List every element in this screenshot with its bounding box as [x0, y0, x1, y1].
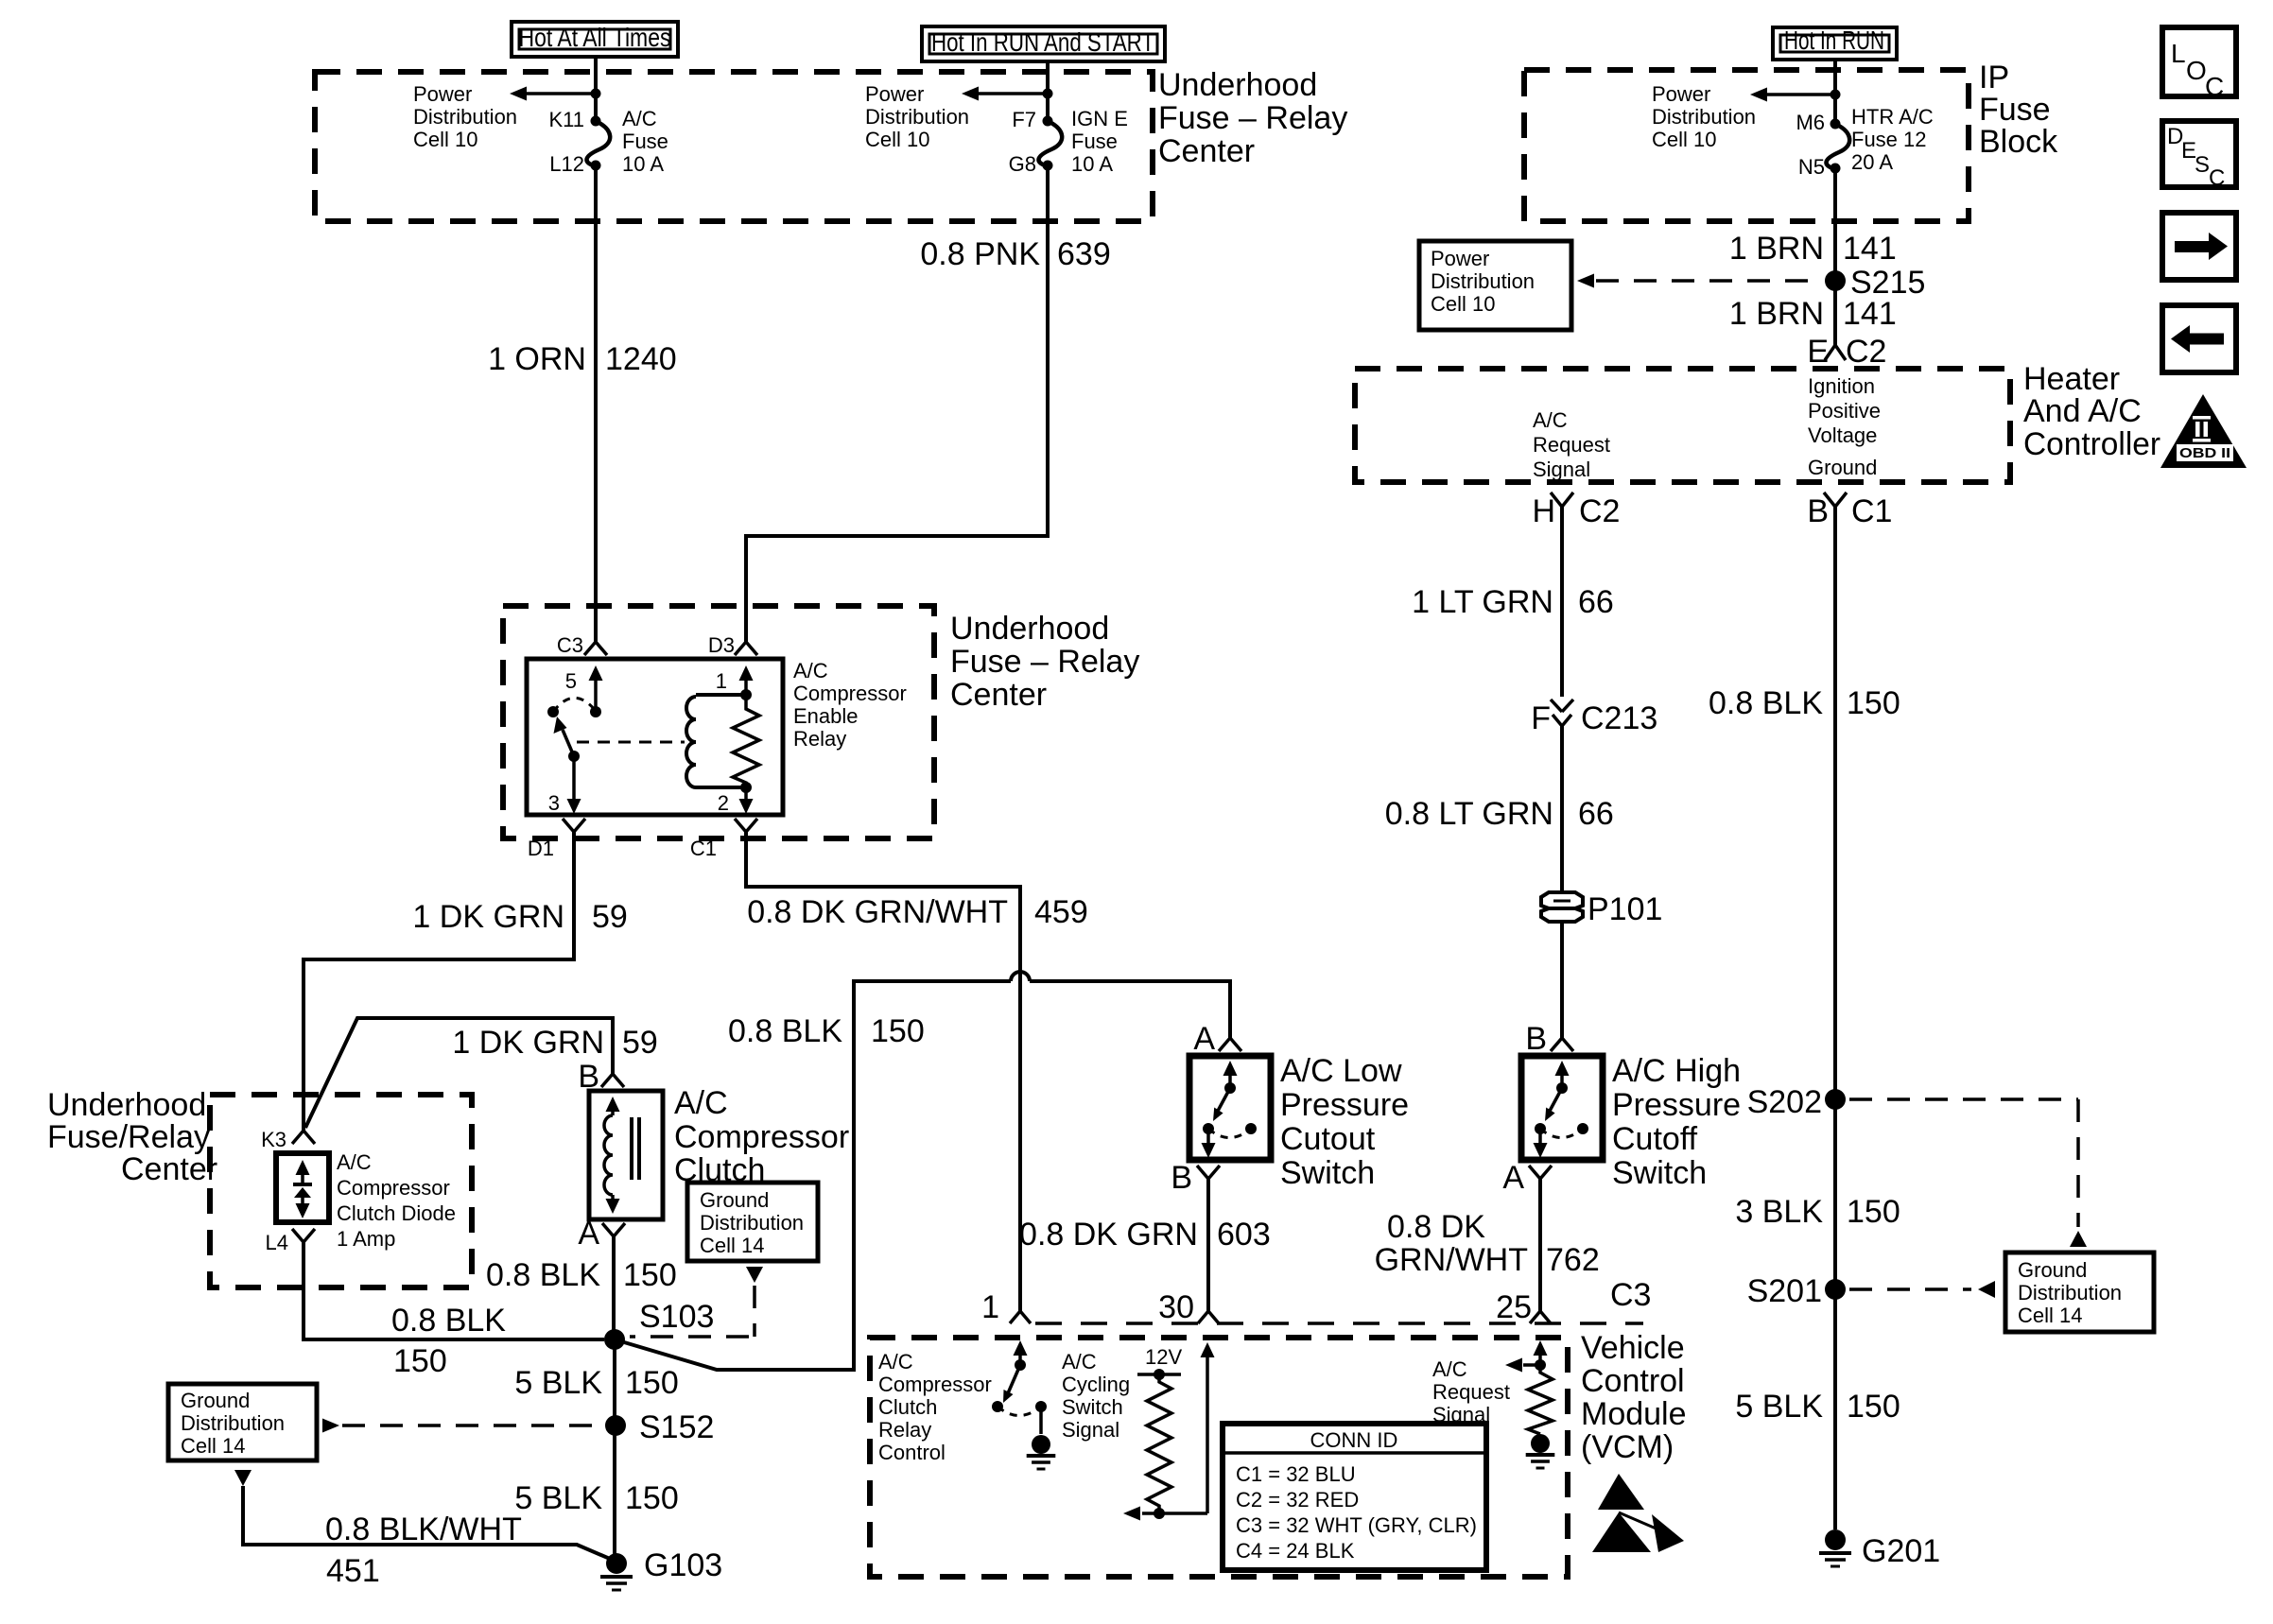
- svg-text:OBD II: OBD II: [2179, 446, 2230, 461]
- pin F7: [1012, 108, 1036, 131]
- svg-text:Cell 10: Cell 10: [865, 128, 929, 151]
- svg-text:Switch: Switch: [1062, 1395, 1123, 1419]
- svg-text:C2 = 32 RED: C2 = 32 RED: [1236, 1488, 1359, 1512]
- connector E C2 into controller: [1807, 334, 1886, 370]
- svg-text:Signal: Signal: [1062, 1418, 1119, 1442]
- svg-text:Heater: Heater: [2023, 361, 2120, 397]
- pointer from S201 to ground distribution: [1849, 1281, 1995, 1298]
- svg-text:Cycling: Cycling: [1062, 1373, 1130, 1396]
- pointer arrow from S215 to power distribution: [1577, 274, 1821, 288]
- label: 1 LT GRN 66: [1412, 584, 1614, 620]
- svg-text:L: L: [2171, 39, 2186, 68]
- underhood fuse-relay center box (top): [315, 72, 1153, 221]
- relay movable contact arm: [554, 717, 575, 756]
- svg-text:150: 150: [625, 1480, 679, 1516]
- svg-text:20 A: 20 A: [1851, 150, 1893, 174]
- label: 0.8 DK GRN 603: [1019, 1217, 1271, 1253]
- label: 1 BRN 141 (upper): [1729, 231, 1897, 267]
- ground G201: [1819, 1529, 1940, 1569]
- label: 0.8 BLK 150 (clutch ground): [486, 1257, 677, 1293]
- label: A/C Compressor Clutch: [674, 1085, 849, 1188]
- legend icon: left arrow box: [2162, 305, 2236, 372]
- svg-text:D1: D1: [528, 837, 554, 860]
- svg-text:1 ORN: 1 ORN: [488, 341, 586, 377]
- svg-text:Power: Power: [413, 82, 472, 106]
- wire: clutch A to S103: [612, 1236, 616, 1340]
- svg-text:Cell 10: Cell 10: [413, 128, 477, 151]
- relay U1: A/C Compressor Enable Relay box: [527, 659, 783, 815]
- wire: P101 to high pressure switch B: [1560, 922, 1564, 1038]
- svg-text:C1: C1: [1851, 493, 1892, 529]
- arrow to Power Distribution Cell 10 (IP): [1750, 88, 1841, 102]
- relay pin 3 arrow to D1: [548, 756, 581, 815]
- relay switch pivot contact: [547, 706, 559, 717]
- label: 1 DK GRN 59 (lower): [452, 1025, 657, 1061]
- svg-text:IGN E: IGN E: [1071, 107, 1128, 130]
- splice S202: [1747, 1084, 1846, 1120]
- relay pin 2 arrow to C1: [718, 787, 754, 815]
- connector A into low pressure switch: [1193, 1021, 1241, 1057]
- relay switch dashed arc: [553, 698, 596, 712]
- svg-text:762: 762: [1546, 1242, 1600, 1278]
- wire: 0.8 BLK 150 from S103 to low pressure switch A with hop over 459: [615, 972, 1230, 1370]
- label: 150 (L4 wire): [393, 1343, 447, 1379]
- svg-text:C2: C2: [1846, 334, 1886, 370]
- connector C213 inline: [1531, 700, 1657, 736]
- svg-text:1 DK GRN: 1 DK GRN: [412, 899, 564, 935]
- label: 1 BRN 141 (lower): [1729, 296, 1897, 332]
- pin M6: [1796, 111, 1825, 134]
- svg-text:59: 59: [622, 1025, 658, 1061]
- svg-text:0.8 PNK: 0.8 PNK: [920, 236, 1040, 272]
- label: A/C High Pressure Cutoff Switch: [1612, 1053, 1741, 1191]
- svg-text:A/C: A/C: [1533, 408, 1568, 432]
- label: 5 BLK 150 (upper): [514, 1365, 678, 1401]
- svg-text:0.8 BLK: 0.8 BLK: [391, 1303, 506, 1339]
- connector B out of low pressure switch: [1171, 1160, 1220, 1196]
- svg-text:Clutch: Clutch: [878, 1395, 937, 1419]
- VCM switch ground: [1027, 1435, 1056, 1469]
- svg-text:0.8 BLK/WHT: 0.8 BLK/WHT: [325, 1512, 522, 1547]
- svg-text:1 LT GRN: 1 LT GRN: [1412, 584, 1553, 620]
- svg-text:Voltage: Voltage: [1808, 423, 1877, 447]
- svg-text:Enable: Enable: [793, 704, 859, 728]
- svg-text:Fuse – Relay: Fuse – Relay: [950, 644, 1139, 680]
- svg-text:B: B: [1807, 493, 1829, 529]
- connector C3 into relay: [557, 633, 607, 657]
- svg-text:Positive: Positive: [1808, 399, 1881, 423]
- arrow to Power Distribution Cell 10 (middle): [962, 87, 1053, 101]
- svg-text:Controller: Controller: [2023, 426, 2160, 462]
- svg-text:And A/C: And A/C: [2023, 393, 2142, 429]
- label: Underhood Fuse - Relay Center (top): [1158, 67, 1347, 169]
- splice S215: [1825, 265, 1925, 301]
- svg-text:L4: L4: [266, 1231, 288, 1254]
- svg-text:Pressure: Pressure: [1280, 1087, 1409, 1123]
- connector H C2 out of controller: [1532, 492, 1620, 529]
- legend icon: LOC box: [2162, 27, 2236, 101]
- svg-text:66: 66: [1578, 796, 1614, 832]
- svg-text:Distribution: Distribution: [1652, 105, 1756, 129]
- svg-text:1 BRN: 1 BRN: [1729, 296, 1824, 332]
- svg-text:G103: G103: [644, 1547, 722, 1583]
- svg-text:Power: Power: [865, 82, 924, 106]
- svg-text:1: 1: [981, 1289, 999, 1325]
- svg-text:150: 150: [1847, 685, 1900, 721]
- svg-text:Cell 10: Cell 10: [1652, 128, 1716, 151]
- label: A/C Low Pressure Cutout Switch: [1280, 1053, 1409, 1191]
- svg-text:Center: Center: [950, 677, 1047, 713]
- svg-text:5 BLK: 5 BLK: [1735, 1389, 1823, 1425]
- svg-text:IP: IP: [1979, 60, 2009, 95]
- svg-text:Hot In RUN: Hot In RUN: [1784, 26, 1884, 55]
- wire: battery feed to A/C fuse: [594, 57, 598, 121]
- svg-text:Block: Block: [1979, 124, 2058, 160]
- svg-text:150: 150: [625, 1365, 679, 1401]
- pointer arrow from ground distribution to S103: [630, 1267, 763, 1337]
- label: 0.8 PNK 639: [920, 236, 1110, 272]
- label: A/C Compressor Clutch Diode 1 Amp: [337, 1150, 456, 1251]
- thin connector line C3 of VCM: [1035, 1322, 1643, 1325]
- svg-text:GRN/WHT: GRN/WHT: [1375, 1242, 1528, 1278]
- label: 0.8 DK GRN/WHT 459: [747, 894, 1088, 930]
- svg-text:Ground: Ground: [2018, 1258, 2087, 1282]
- svg-text:459: 459: [1034, 894, 1088, 930]
- svg-text:Center: Center: [121, 1151, 217, 1187]
- svg-text:F7: F7: [1012, 108, 1036, 131]
- label: 0.8 BLK/WHT 451: [325, 1512, 522, 1589]
- connector B into high pressure switch: [1525, 1021, 1573, 1057]
- svg-text:S201: S201: [1747, 1273, 1822, 1309]
- svg-text:141: 141: [1843, 231, 1897, 267]
- fuse: HTR A/C Fuse 12 20 A (M6-N5): [1827, 119, 1850, 174]
- label: 0.8 LT GRN 66: [1385, 796, 1614, 832]
- svg-text:Cutout: Cutout: [1280, 1121, 1376, 1157]
- svg-text:0.8 BLK: 0.8 BLK: [486, 1257, 600, 1293]
- pin K11: [548, 108, 584, 131]
- splice S201: [1747, 1273, 1846, 1309]
- label: 5 BLK 150 (right): [1735, 1389, 1900, 1425]
- svg-text:1 DK GRN: 1 DK GRN: [452, 1025, 604, 1061]
- svg-text:25: 25: [1496, 1289, 1532, 1325]
- svg-text:Distribution: Distribution: [700, 1211, 804, 1235]
- svg-text:B: B: [1171, 1160, 1192, 1196]
- svg-text:Ground: Ground: [700, 1188, 769, 1212]
- ground G103: [600, 1547, 722, 1590]
- relay resistor: [733, 695, 759, 787]
- svg-text:150: 150: [1847, 1194, 1900, 1230]
- svg-text:Switch: Switch: [1612, 1155, 1707, 1191]
- label: 0.8 BLK 150 (right): [1709, 685, 1900, 721]
- svg-text:S152: S152: [639, 1409, 714, 1445]
- VCM pin 25: [1496, 1289, 1551, 1325]
- svg-text:Cell 10: Cell 10: [1431, 292, 1495, 316]
- svg-text:A/C: A/C: [1062, 1350, 1097, 1373]
- svg-text:C1: C1: [690, 837, 717, 860]
- relay pin 1 arrow: [716, 665, 754, 695]
- relay coil actuation dashed link: [577, 741, 685, 744]
- switch S2: A/C High Pressure Cutoff Switch box: [1521, 1056, 1603, 1160]
- svg-text:Underhood: Underhood: [1158, 67, 1317, 103]
- connector L4 out of diode: [266, 1229, 315, 1254]
- high pressure switch contacts: [1534, 1061, 1589, 1158]
- relay coil bottom junction: [740, 782, 752, 793]
- svg-text:Compressor: Compressor: [337, 1176, 450, 1200]
- clutch L1: A/C Compressor Clutch box: [589, 1091, 663, 1219]
- diode symbol with arrows: [293, 1160, 312, 1218]
- label: 0.8 BLK 150 (switch feed): [728, 1013, 925, 1049]
- label: Ignition Positive Voltage: [1808, 374, 1881, 447]
- svg-text:Ground: Ground: [1808, 456, 1877, 479]
- svg-text:A/C: A/C: [622, 107, 657, 130]
- wire: 0.8 BLK 150 controller B to G201: [1833, 507, 1837, 1529]
- svg-text:5 BLK: 5 BLK: [514, 1480, 602, 1516]
- wire: run feed to HTR A/C fuse: [1833, 60, 1837, 124]
- svg-text:N5: N5: [1798, 155, 1825, 179]
- svg-text:G201: G201: [1862, 1533, 1940, 1569]
- relay coil: [686, 689, 752, 787]
- ground distribution box (left): [168, 1384, 317, 1460]
- svg-text:1: 1: [716, 669, 727, 693]
- svg-text:Relay: Relay: [793, 727, 846, 751]
- label: 1 DK GRN 59 (upper): [412, 899, 627, 935]
- wire: 0.8 BLK/WHT 451 to G103: [243, 1486, 616, 1562]
- connector A out of clutch: [578, 1216, 625, 1252]
- svg-text:12V: 12V: [1145, 1345, 1182, 1369]
- power distribution box (S215): [1419, 241, 1571, 330]
- ground distribution box (near clutch): [687, 1183, 818, 1261]
- label: A/C Compressor Clutch Relay Control: [878, 1350, 992, 1464]
- label: A/C Request Signal (VCM): [1432, 1357, 1510, 1426]
- svg-text:Underhood: Underhood: [47, 1087, 206, 1123]
- svg-text:P101: P101: [1588, 891, 1662, 927]
- svg-text:A: A: [1193, 1021, 1215, 1057]
- svg-text:150: 150: [623, 1257, 677, 1293]
- wire: L4 to S103: [304, 1242, 604, 1339]
- svg-text:0.8 BLK: 0.8 BLK: [1709, 685, 1823, 721]
- svg-text:639: 639: [1057, 236, 1111, 272]
- svg-text:1 BRN: 1 BRN: [1729, 231, 1824, 267]
- label: Underhood Fuse/Relay Center: [47, 1087, 217, 1187]
- fuse: A/C Fuse 10 A (K11-L12): [587, 116, 611, 171]
- power label box: Hot In RUN: [1773, 26, 1897, 60]
- VCM pin 25 internal: A/C request signal: [1505, 1340, 1553, 1434]
- svg-text:A/C: A/C: [674, 1085, 728, 1121]
- svg-text:2: 2: [718, 791, 729, 815]
- svg-text:0.8 DK GRN/WHT: 0.8 DK GRN/WHT: [747, 894, 1008, 930]
- svg-text:C3: C3: [1610, 1277, 1651, 1313]
- relay pin 5 contact and arrow: [565, 665, 603, 717]
- label: 0.8 DK GRN/WHT 762: [1375, 1209, 1600, 1278]
- svg-text:A: A: [578, 1216, 599, 1252]
- svg-text:Fuse 12: Fuse 12: [1851, 128, 1927, 151]
- svg-text:A/C: A/C: [878, 1350, 913, 1373]
- svg-text:S202: S202: [1747, 1084, 1822, 1120]
- svg-text:HTR A/C: HTR A/C: [1851, 105, 1934, 129]
- label: Power Distribution Cell 10 (underhood middle): [865, 82, 969, 151]
- svg-text:C4 = 24 BLK: C4 = 24 BLK: [1236, 1539, 1355, 1563]
- svg-text:A/C: A/C: [793, 659, 828, 682]
- svg-text:Distribution: Distribution: [413, 105, 517, 129]
- label: IGN E Fuse 10 A: [1071, 107, 1128, 176]
- connector K3 into diode: [261, 1128, 315, 1151]
- svg-text:0.8 DK: 0.8 DK: [1387, 1209, 1485, 1245]
- ESD sensitive symbol: [1592, 1474, 1684, 1552]
- svg-text:M6: M6: [1796, 111, 1825, 134]
- svg-text:Request: Request: [1432, 1380, 1510, 1404]
- wire: 1 LT GRN 66 from controller H to C213: [1560, 507, 1564, 697]
- svg-text:Control: Control: [1581, 1363, 1685, 1399]
- svg-text:59: 59: [592, 899, 628, 935]
- relay lower contact: [568, 751, 580, 762]
- svg-text:Vehicle: Vehicle: [1581, 1330, 1685, 1366]
- pin L12: [549, 152, 584, 176]
- connector C1 out of relay: [690, 819, 757, 860]
- wire: 1 BRN 141 from IP fuse to E C2: [1833, 168, 1837, 345]
- label: A/C Fuse 10 A: [622, 107, 668, 176]
- svg-text:Module: Module: [1581, 1396, 1687, 1432]
- svg-text:Distribution: Distribution: [1431, 269, 1535, 293]
- svg-text:0.8 BLK: 0.8 BLK: [728, 1013, 842, 1049]
- label: 3 BLK 150: [1735, 1194, 1900, 1230]
- svg-text:(VCM): (VCM): [1581, 1429, 1674, 1465]
- svg-text:G8: G8: [1009, 152, 1036, 176]
- svg-text:10 A: 10 A: [1071, 152, 1113, 176]
- label: IP Fuse Block: [1979, 60, 2058, 160]
- svg-text:Compressor: Compressor: [878, 1373, 992, 1396]
- label: 0.8 BLK (L4 wire): [391, 1303, 506, 1339]
- wire: 1 DK GRN 59 branch to clutch B: [305, 1018, 613, 1128]
- svg-text:Hot In RUN And START: Hot In RUN And START: [931, 27, 1154, 57]
- svg-text:Fuse: Fuse: [622, 130, 668, 153]
- label: 5 BLK 150 (lower): [514, 1480, 678, 1516]
- legend icon: DESC box: [2162, 121, 2236, 191]
- svg-text:Pressure: Pressure: [1612, 1087, 1741, 1123]
- svg-text:Control: Control: [878, 1441, 946, 1464]
- VCM pin 1: [981, 1289, 1031, 1325]
- svg-text:Distribution: Distribution: [181, 1411, 285, 1435]
- svg-text:Power: Power: [1431, 247, 1489, 270]
- svg-text:F: F: [1531, 700, 1551, 736]
- wire: 0.8 DK GRN/WHT 459 from relay C1 to VCM pin 1: [746, 832, 1020, 1311]
- svg-text:A/C: A/C: [1432, 1357, 1467, 1381]
- svg-text:A/C Low: A/C Low: [1280, 1053, 1402, 1089]
- pointer arrow below left ground distribution (451 wire): [234, 1470, 252, 1486]
- svg-text:C2: C2: [1579, 493, 1620, 529]
- VCM pin 30 internal arrow and link: [1123, 1342, 1215, 1521]
- svg-text:Ground: Ground: [181, 1389, 250, 1412]
- VCM pin 1 internal switch: [992, 1340, 1047, 1434]
- svg-text:150: 150: [1847, 1389, 1900, 1425]
- underhood fuse/relay center box (diode): [210, 1095, 472, 1287]
- pin N5: [1798, 155, 1825, 179]
- label: 1 ORN 1240: [488, 341, 677, 377]
- svg-text:C: C: [2209, 165, 2225, 191]
- svg-text:5 BLK: 5 BLK: [514, 1365, 602, 1401]
- connector D3 into relay: [708, 633, 757, 657]
- vehicle control module box: [870, 1338, 1568, 1577]
- wire: S103 to S152 to G103: [613, 1339, 616, 1564]
- svg-text:CONN ID: CONN ID: [1310, 1428, 1398, 1452]
- connector P101 pass-through: [1541, 891, 1662, 927]
- svg-text:5: 5: [565, 669, 577, 693]
- svg-text:603: 603: [1217, 1217, 1271, 1253]
- svg-text:Fuse – Relay: Fuse – Relay: [1158, 100, 1347, 136]
- svg-text:C1 = 32 BLU: C1 = 32 BLU: [1236, 1462, 1356, 1486]
- power label box: Hot In RUN And START: [922, 26, 1165, 61]
- svg-text:K3: K3: [261, 1128, 286, 1151]
- svg-text:Cell 14: Cell 14: [2018, 1304, 2082, 1327]
- svg-text:Fuse: Fuse: [1979, 92, 2051, 128]
- svg-text:66: 66: [1578, 584, 1614, 620]
- power label box: Hot At All Times: [512, 22, 678, 57]
- svg-text:C: C: [2205, 72, 2224, 101]
- svg-text:0.8 LT GRN: 0.8 LT GRN: [1385, 796, 1553, 832]
- label: Power Distribution Cell 10 (IP): [1652, 82, 1756, 151]
- heater and A/C controller box: [1355, 369, 2010, 482]
- connector B C1 out of controller: [1807, 492, 1892, 529]
- svg-text:Relay: Relay: [878, 1418, 931, 1442]
- diode D1: A/C Compressor Clutch Diode box: [276, 1153, 329, 1222]
- label: Heater And A/C Controller: [2023, 361, 2160, 462]
- low pressure switch contacts: [1202, 1061, 1258, 1158]
- svg-text:B: B: [1525, 1021, 1547, 1057]
- label: 12V: [1145, 1345, 1182, 1369]
- wire: 0.8 DK GRN 603 to VCM pin 30: [1206, 1179, 1210, 1311]
- ground distribution box (right): [2005, 1253, 2154, 1332]
- svg-text:1240: 1240: [605, 341, 677, 377]
- label: Vehicle Control Module (VCM): [1581, 1330, 1687, 1465]
- svg-text:Distribution: Distribution: [865, 105, 969, 129]
- svg-text:10 A: 10 A: [622, 152, 664, 176]
- svg-text:C3 = 32 WHT (GRY, CLR): C3 = 32 WHT (GRY, CLR): [1236, 1513, 1477, 1537]
- wire: 0.8 DK GRN/WHT 762 to VCM pin 25: [1538, 1179, 1542, 1311]
- label: C3 connector of VCM: [1610, 1277, 1651, 1313]
- svg-text:C213: C213: [1581, 700, 1657, 736]
- svg-text:Fuse: Fuse: [1071, 130, 1118, 153]
- svg-text:Center: Center: [1158, 133, 1255, 169]
- wire: 0.8 PNK 639 from fuse to relay D3: [746, 165, 1048, 642]
- wire: 0.8 LT GRN 66 from C213 to P101: [1560, 726, 1564, 894]
- connector A out of high pressure switch: [1502, 1160, 1552, 1196]
- wire: 1 DK GRN 59 relay D1 to K3: [304, 832, 574, 1131]
- svg-text:K11: K11: [548, 108, 584, 131]
- splice S152: [605, 1409, 714, 1445]
- svg-text:A: A: [1502, 1160, 1524, 1196]
- pointer arrow from left ground distribution to S152: [322, 1419, 603, 1433]
- svg-text:S103: S103: [639, 1299, 714, 1335]
- connector B into clutch: [578, 1059, 624, 1095]
- clutch coil with arrows and core bars: [604, 1097, 639, 1214]
- svg-text:Power: Power: [1652, 82, 1710, 106]
- splice S103: [604, 1299, 714, 1350]
- label: Underhood Fuse - Relay Center (relay): [950, 611, 1139, 713]
- svg-text:Cutoff: Cutoff: [1612, 1121, 1698, 1157]
- legend icon: OBD II triangle: [2160, 394, 2247, 468]
- label: A/C Compressor Enable Relay: [793, 659, 907, 751]
- VCM 12V pullup resistor: [1137, 1369, 1181, 1519]
- VCM pin 30: [1158, 1289, 1219, 1325]
- svg-text:A/C: A/C: [337, 1150, 372, 1174]
- connector D1 out of relay: [528, 819, 585, 860]
- arrow to Power Distribution Cell 10 (left): [510, 87, 601, 101]
- svg-text:Switch: Switch: [1280, 1155, 1375, 1191]
- svg-text:A/C High: A/C High: [1612, 1053, 1741, 1089]
- svg-text:Distribution: Distribution: [2018, 1281, 2122, 1304]
- CONN ID table: [1223, 1424, 1486, 1570]
- wire: ignition feed to IGN E fuse: [1046, 61, 1050, 121]
- svg-text:Request: Request: [1533, 433, 1610, 457]
